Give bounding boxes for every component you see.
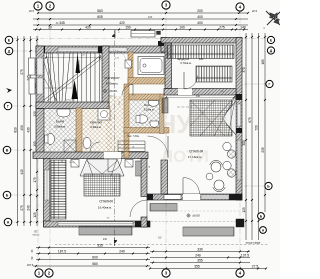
svg-text:КОРИДОР: КОРИДОР — [104, 76, 119, 80]
svg-text:137.5: 137.5 — [241, 254, 249, 258]
svg-text:240: 240 — [27, 205, 31, 211]
svg-text:275: 275 — [219, 26, 225, 30]
svg-text:810: 810 — [14, 127, 18, 133]
svg-text:420: 420 — [119, 21, 125, 25]
svg-text:90 90: 90 90 — [69, 162, 75, 164]
svg-text:240: 240 — [103, 238, 108, 241]
svg-text:Г: Г — [269, 83, 271, 87]
svg-text:80/220: 80/220 — [33, 235, 40, 237]
svg-text:563: 563 — [97, 9, 103, 13]
svg-text:125: 125 — [242, 207, 246, 213]
svg-text:НУРВ: НУРВ — [157, 109, 228, 139]
svg-text:560: 560 — [92, 262, 98, 266]
svg-text:ЛОТИ: ЛОТИ — [161, 147, 209, 166]
svg-text:175: 175 — [33, 177, 37, 183]
svg-text:О.П.(2.75): О.П.(2.75) — [65, 100, 75, 102]
svg-text:3,00кв.м.: 3,00кв.м. — [144, 108, 155, 112]
svg-text:720: 720 — [255, 125, 259, 131]
svg-text:16x17.6: 16x17.6 — [79, 60, 81, 68]
svg-text:изход ограда: изход ограда — [246, 242, 261, 245]
svg-text:150: 150 — [125, 26, 131, 30]
svg-text:2,90кв.м.: 2,90кв.м. — [90, 125, 101, 129]
svg-text:345: 345 — [59, 21, 65, 25]
svg-text:235: 235 — [261, 147, 265, 153]
svg-text:ВТ.: ВТ. — [34, 231, 38, 234]
svg-text:ПЕРАЛНЯ: ПЕРАЛНЯ — [90, 122, 102, 125]
svg-text:Нив. 7,80м: Нив. 7,80м — [127, 135, 139, 138]
svg-text:30: 30 — [48, 26, 52, 30]
svg-text:675: 675 — [248, 117, 252, 123]
svg-text:100: 100 — [179, 26, 185, 30]
svg-text:22.5: 22.5 — [29, 9, 35, 13]
svg-text:6,40кв.м.: 6,40кв.м. — [106, 82, 119, 86]
svg-text:165: 165 — [261, 59, 265, 65]
svg-text:Д: Д — [8, 50, 11, 54]
svg-text:445: 445 — [20, 169, 24, 175]
svg-text:430: 430 — [27, 127, 31, 133]
svg-text:400: 400 — [197, 15, 203, 19]
svg-text:400: 400 — [197, 21, 203, 25]
svg-text:355: 355 — [194, 265, 200, 269]
svg-text:А: А — [7, 221, 10, 225]
svg-text:370: 370 — [242, 67, 246, 73]
svg-text:±0.00: ±0.00 — [192, 214, 200, 218]
svg-text:330: 330 — [197, 248, 203, 252]
svg-text:535: 535 — [97, 244, 103, 248]
svg-text:Б: Б — [6, 194, 9, 198]
svg-text:61°: 61° — [158, 237, 162, 240]
svg-text:3,80кв.м.: 3,80кв.м. — [54, 125, 66, 129]
svg-text:450: 450 — [20, 125, 24, 131]
svg-text:240: 240 — [119, 250, 125, 254]
svg-text:187.5: 187.5 — [27, 264, 34, 267]
svg-text:140: 140 — [240, 26, 246, 30]
svg-text:275: 275 — [20, 69, 24, 75]
svg-text:22.5: 22.5 — [252, 9, 258, 13]
svg-text:27.5: 27.5 — [252, 265, 259, 269]
svg-text:120: 120 — [148, 15, 153, 19]
svg-text:240: 240 — [195, 254, 201, 258]
svg-text:187.5: 187.5 — [58, 250, 66, 254]
svg-text:В: В — [6, 149, 9, 153]
svg-text:420: 420 — [85, 26, 91, 30]
svg-text:605: 605 — [97, 15, 103, 19]
svg-text:СПАЛНЯ: СПАЛНЯ — [99, 200, 113, 204]
svg-text:600: 600 — [92, 256, 98, 260]
svg-text:275: 275 — [20, 205, 24, 211]
svg-text:6,70кв.м.: 6,70кв.м. — [180, 61, 191, 65]
svg-text:Г: Г — [7, 105, 9, 109]
svg-text:300: 300 — [242, 140, 246, 146]
svg-text:16,40кв.м.: 16,40кв.м. — [98, 206, 112, 210]
svg-text:330: 330 — [196, 95, 201, 98]
svg-text:355: 355 — [197, 259, 203, 263]
svg-text:125: 125 — [33, 212, 37, 218]
svg-text:±0.00: ±0.00 — [109, 89, 117, 93]
svg-text:БАНЯ: БАНЯ — [56, 120, 64, 124]
svg-text:200: 200 — [197, 9, 203, 13]
